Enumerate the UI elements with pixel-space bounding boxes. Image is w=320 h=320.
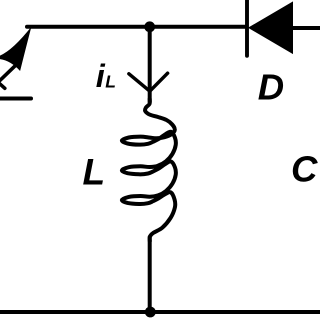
switch arrowhead (filled curved arrow tip) (0, 27, 31, 71)
svg-text:i: i (96, 58, 106, 94)
wire top rail right segment (292, 26, 320, 30)
diode D triangle (249, 2, 293, 53)
inductor L coil (122, 99, 176, 241)
wire vertical from top junction to inductor (148, 27, 152, 102)
junction dot bottom (145, 307, 156, 318)
svg-text:L: L (105, 72, 116, 92)
diode D cathode bar (245, 0, 249, 56)
svg-text:D: D (258, 67, 284, 108)
wire top rail left segment (27, 25, 245, 29)
svg-text:L: L (83, 152, 106, 193)
wire bottom rail (0, 310, 320, 314)
svg-text:C: C (291, 148, 318, 189)
switch contact terminal (bottom left) (0, 97, 31, 101)
switch blade tail segment (0, 64, 17, 88)
wire vertical from inductor to bottom rail (148, 237, 152, 312)
junction dot top (144, 21, 155, 32)
current arrow iL (open arrowhead on vertical wire) (129, 73, 168, 91)
